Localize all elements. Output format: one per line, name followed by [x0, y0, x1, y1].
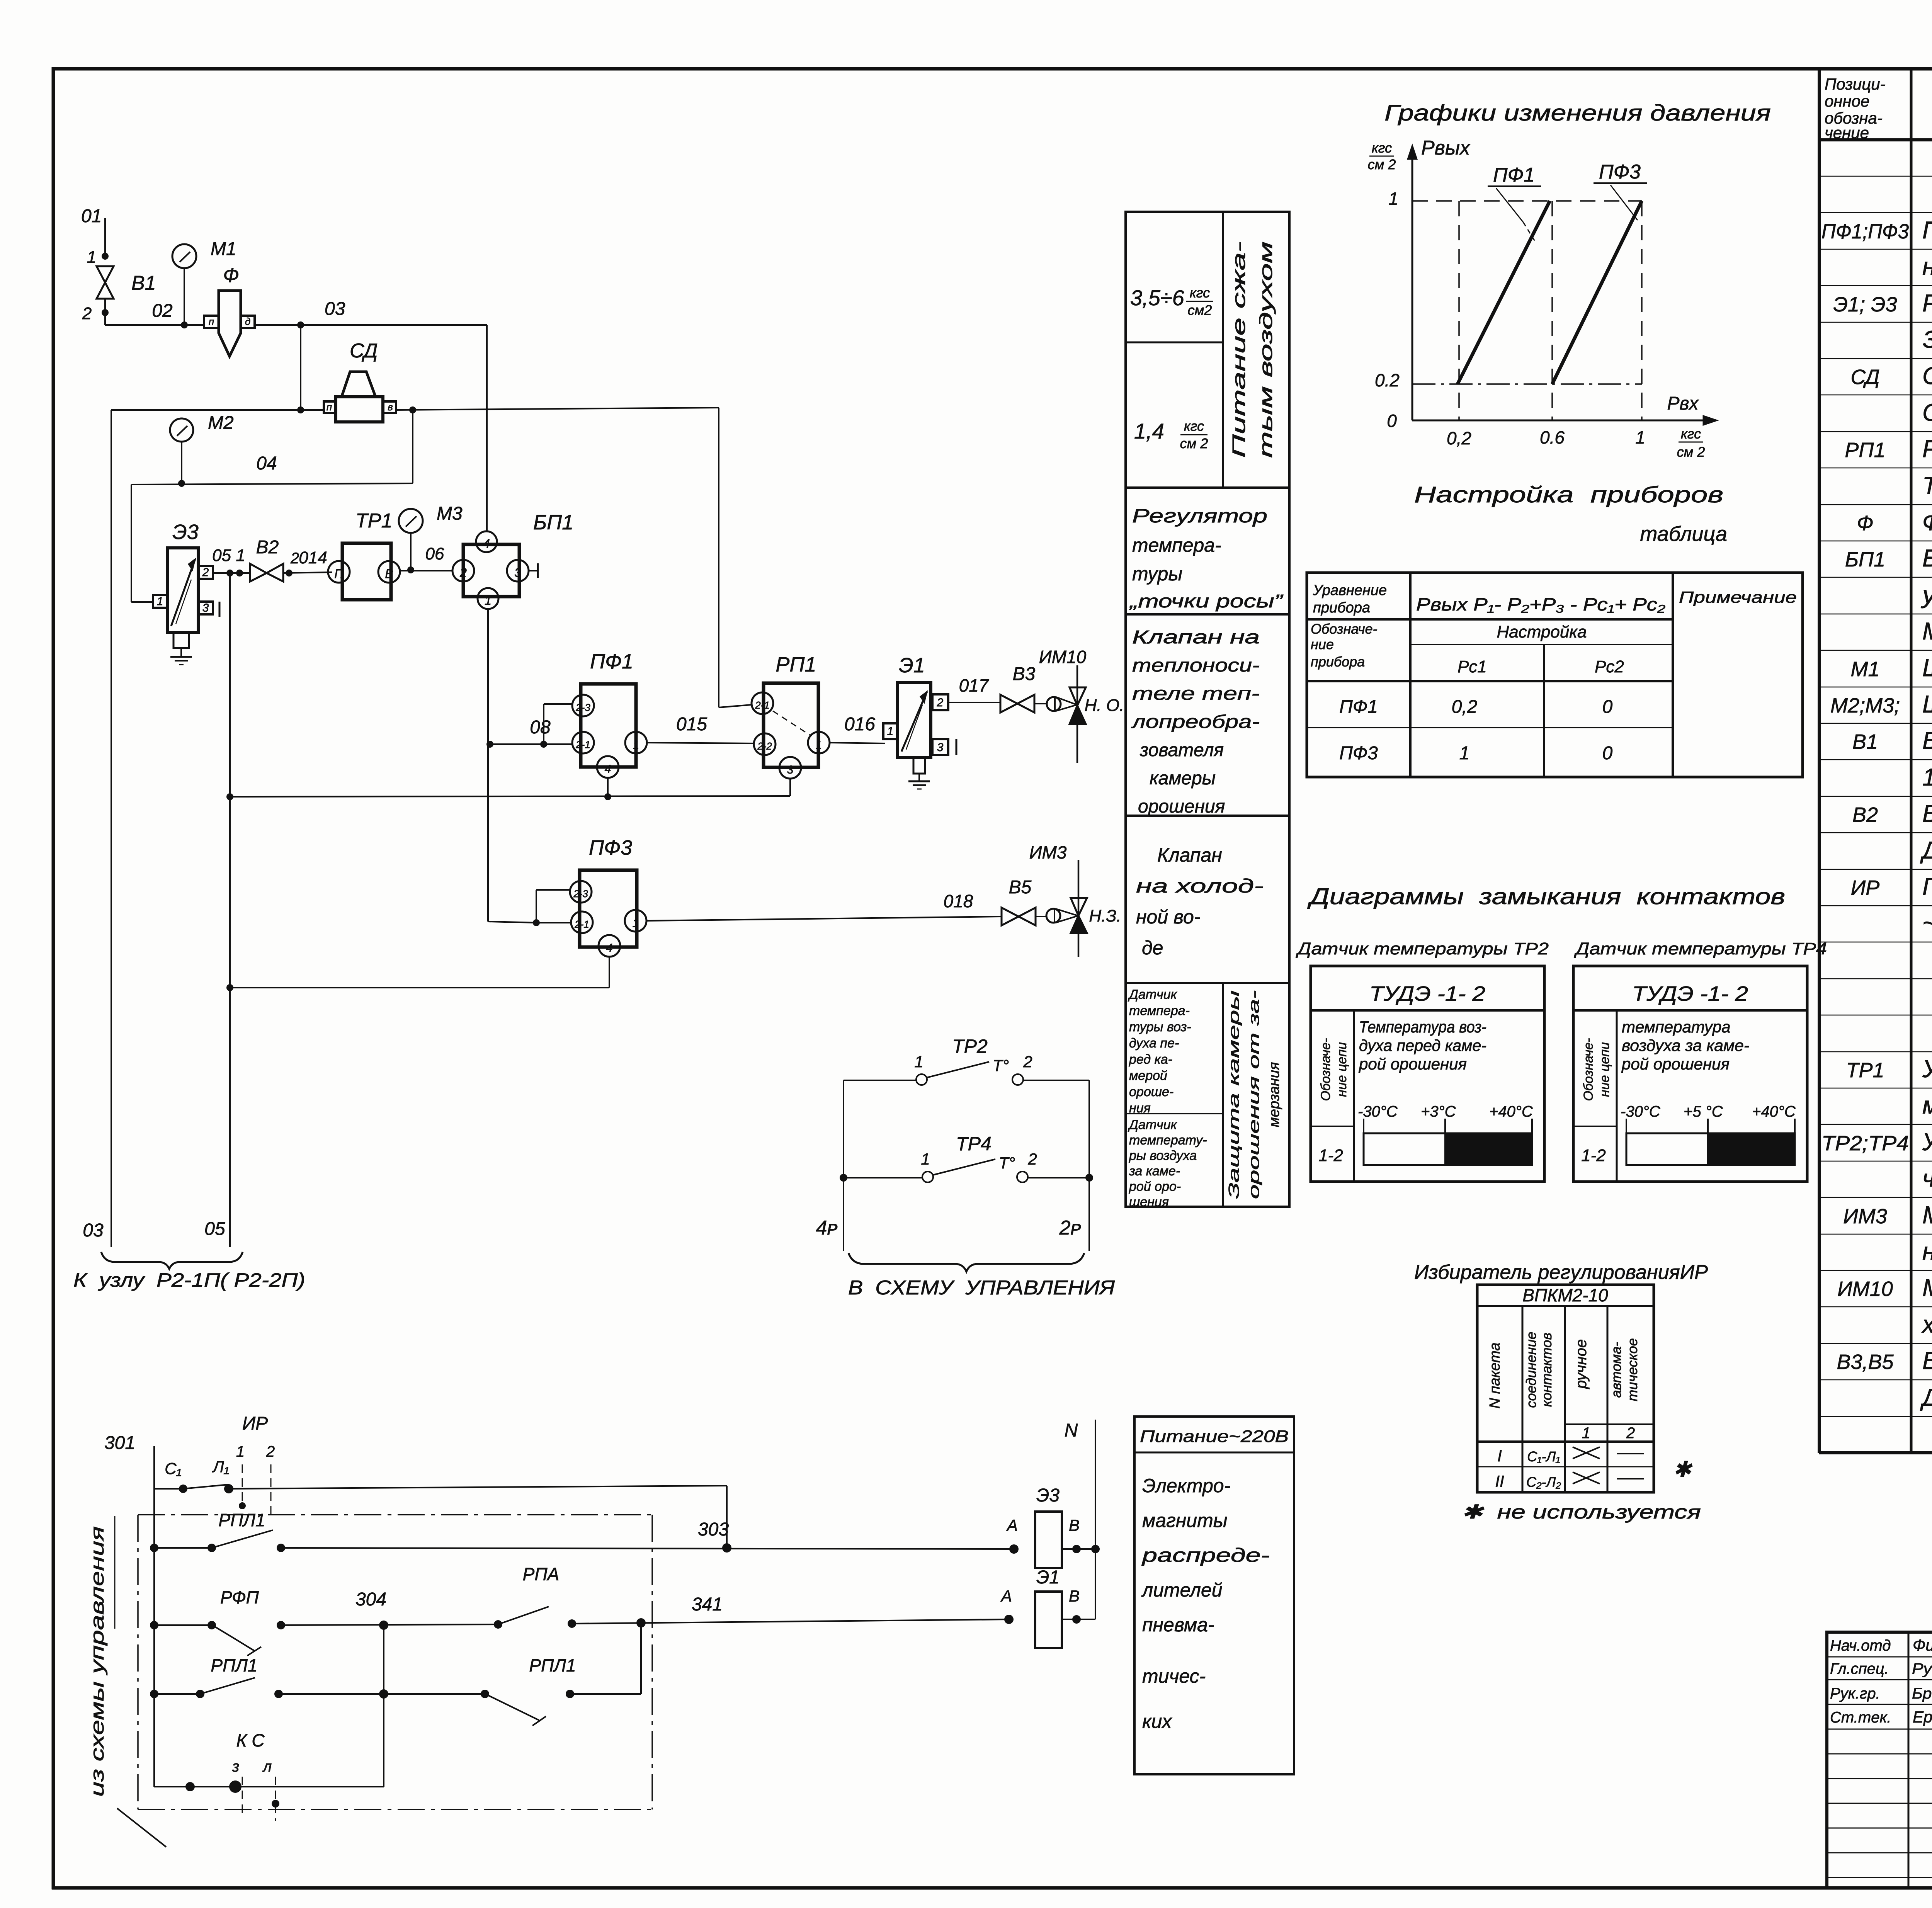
- svg-text:М1: М1: [211, 239, 236, 259]
- svg-text:Рубчинский: Рубчинский: [1912, 1660, 1932, 1677]
- svg-text:3ˣходовой 22кч801бк ТУ26-07-0: 3ˣходовой 22кч801бк ТУ26-07-034-76: [1922, 326, 1932, 353]
- svg-text:1: 1: [633, 739, 639, 752]
- svg-text:Стабилизатор давления воздуха: Стабилизатор давления воздуха: [1922, 362, 1932, 389]
- svg-text:Фингер: Фингер: [1913, 1636, 1932, 1654]
- valve V2: [250, 537, 332, 582]
- actuator IM3: [1029, 842, 1121, 957]
- svg-text:ние цепи: ние цепи: [1335, 1042, 1349, 1097]
- wire 03 to BP1: [486, 325, 488, 531]
- svg-text:В1: В1: [131, 272, 156, 294]
- svg-text:орошения от за-: орошения от за-: [1246, 990, 1262, 1199]
- parts list table: [1819, 68, 1932, 1453]
- TR4 contact row: [840, 1133, 1093, 1182]
- svg-text:0,2: 0,2: [1447, 428, 1471, 448]
- svg-text:Примечание: Примечание: [1679, 588, 1797, 606]
- svg-text:ПФ1: ПФ1: [1493, 164, 1535, 186]
- svg-text:Шкала 0÷10 кгс /см²: Шкала 0÷10 кгс /см²: [1922, 655, 1932, 682]
- svg-text:ния: ния: [1129, 1101, 1151, 1116]
- svg-text:мерой: мерой: [1129, 1068, 1167, 1083]
- svg-text:ТР2;ТР4: ТР2;ТР4: [1821, 1132, 1909, 1155]
- svg-text:Настройка приборов: Настройка приборов: [1414, 482, 1723, 507]
- svg-text:С₁: С₁: [165, 1459, 182, 1478]
- svg-text:Фильтр воздуха ФВ6-02 ТУ25-02.: Фильтр воздуха ФВ6-02 ТУ25-02.280666-76: [1922, 508, 1932, 536]
- title block labels: [1830, 1634, 1932, 1726]
- svg-text:чение: чение: [1825, 124, 1869, 142]
- svg-text:С₁-Л₁: С₁-Л₁: [1527, 1449, 1560, 1464]
- svg-text:0: 0: [1602, 697, 1613, 717]
- svg-text:низм ГОСТ 9887-70: низм ГОСТ 9887-70: [1922, 1238, 1932, 1265]
- svg-text:см2: см2: [1188, 302, 1212, 318]
- regulator text: [1129, 505, 1283, 612]
- nastroika title: [1414, 482, 1727, 546]
- svg-text:Ст.тек.: Ст.тек.: [1830, 1709, 1891, 1726]
- svg-text:Вентиль запорный муфтовый: Вентиль запорный муфтовый: [1922, 727, 1932, 754]
- wire 08: [486, 609, 551, 923]
- svg-text:на холод-: на холод-: [1136, 875, 1264, 897]
- svg-text:N пакета: N пакета: [1487, 1342, 1503, 1408]
- rung RPL1 303: [150, 1510, 1014, 1553]
- svg-text:II: II: [1495, 1472, 1504, 1490]
- svg-text:Распределитель пневматически: Распределитель пневматический: [1922, 290, 1932, 317]
- svg-text:Позици-: Позици-: [1825, 75, 1886, 93]
- summator PF3: [533, 836, 646, 957]
- svg-text:Мембранный исполнительный меха: Мембранный исполнительный меха-: [1922, 1202, 1932, 1229]
- svg-text:М1: М1: [1850, 658, 1879, 681]
- parts list header: [1825, 75, 1932, 142]
- wire 06: [400, 544, 452, 571]
- svg-text:А: А: [1000, 1587, 1012, 1605]
- svg-text:РФП: РФП: [220, 1587, 259, 1607]
- svg-text:матическое ТУДП-М-1 ТУ25-02.1: матическое ТУДП-М-1 ТУ25-02.1297-74: [1922, 1092, 1932, 1119]
- svg-text:температу-: температу-: [1129, 1133, 1207, 1148]
- brace K uzlu: [73, 1252, 305, 1291]
- middle column box: [1126, 212, 1289, 1207]
- svg-text:Защита камеры: Защита камеры: [1226, 990, 1242, 1199]
- svg-text:+40°С: +40°С: [1489, 1103, 1533, 1120]
- svg-text:06: 06: [425, 544, 444, 563]
- svg-text:тичес-: тичес-: [1142, 1665, 1206, 1687]
- svg-text:01: 01: [81, 206, 102, 226]
- svg-text:2: 2: [1027, 1150, 1037, 1168]
- wire PF3-4 out: [226, 778, 611, 991]
- svg-text:Н. О.: Н. О.: [1085, 696, 1124, 715]
- svg-text:05: 05: [204, 1219, 225, 1239]
- svg-text:В3: В3: [1013, 664, 1036, 684]
- svg-text:туры воз-: туры воз-: [1129, 1020, 1191, 1034]
- svg-text:В2: В2: [256, 537, 279, 558]
- wire 016: [830, 714, 885, 743]
- svg-text:ИР: ИР: [1851, 876, 1880, 900]
- svg-text:2: 2: [459, 566, 467, 580]
- wire 03: [255, 299, 487, 413]
- svg-text:304: 304: [355, 1589, 386, 1610]
- SD to RP1 wire: [719, 408, 751, 707]
- svg-text:Пакетный выключатель ВПКМ2-10: Пакетный выключатель ВПКМ2-10: [1922, 873, 1932, 900]
- IR switch: [236, 1413, 275, 1518]
- svg-text:0.2: 0.2: [1375, 370, 1400, 390]
- svg-text:ТУДЭ -1- 2: ТУДЭ -1- 2: [1632, 982, 1748, 1005]
- svg-text:из схемы управления: из схемы управления: [87, 1526, 108, 1797]
- rung KC: [154, 1730, 384, 1821]
- svg-text:ких: ких: [1142, 1711, 1172, 1732]
- title block: [1827, 1632, 1932, 1888]
- svg-text:ПФ3: ПФ3: [589, 836, 632, 859]
- coil E1: [1000, 1567, 1095, 1648]
- svg-text:✱: ✱: [1673, 1457, 1693, 1481]
- graph dashed grid: [1412, 201, 1642, 420]
- svg-text:4ᴘ: 4ᴘ: [816, 1217, 838, 1239]
- coil E3: [1006, 1485, 1100, 1568]
- sensor TR4 cell text: [1128, 1117, 1207, 1209]
- svg-text:Электро-: Электро-: [1142, 1475, 1230, 1496]
- svg-text:см 2: см 2: [1677, 444, 1705, 460]
- svg-text:ороше-: ороше-: [1129, 1085, 1173, 1099]
- svg-text:2-3: 2-3: [575, 702, 590, 713]
- svg-text:Байпасная панель дистанционног: Байпасная панель дистанционного: [1922, 545, 1932, 572]
- svg-text:016: 016: [844, 714, 875, 735]
- svg-text:„точки росы”: „точки росы”: [1129, 591, 1283, 612]
- left rail 03: [83, 410, 111, 1247]
- svg-text:301: 301: [104, 1433, 135, 1453]
- rail 05: [204, 573, 230, 1247]
- svg-text:з: з: [232, 1758, 240, 1775]
- svg-text:автома-: автома-: [1608, 1342, 1624, 1398]
- asterisk note: [1461, 1457, 1701, 1523]
- svg-text:✱ не используется: ✱ не используется: [1461, 1501, 1701, 1523]
- svg-text:В1: В1: [1852, 730, 1878, 753]
- bypass panel BP1: [452, 511, 573, 609]
- svg-text:Датчик: Датчик: [1128, 987, 1178, 1002]
- relay RP1: [752, 653, 830, 779]
- svg-text:Н.З.: Н.З.: [1089, 906, 1121, 925]
- actuator IM10: [1039, 647, 1124, 763]
- pressure values: [1130, 285, 1213, 451]
- svg-text:А: А: [1006, 1516, 1018, 1534]
- svg-text:п: п: [327, 401, 332, 413]
- svg-text:тым воздухом: тым воздухом: [1256, 241, 1276, 458]
- svg-text:2-1: 2-1: [575, 739, 590, 750]
- svg-text:-30°С: -30°С: [1621, 1103, 1661, 1120]
- svg-text:+3°С: +3°С: [1421, 1103, 1456, 1120]
- svg-text:N: N: [1065, 1420, 1078, 1441]
- svg-text:Обозначе-: Обозначе-: [1318, 1038, 1333, 1101]
- svg-text:2: 2: [266, 1443, 275, 1460]
- svg-text:15Б 3рк, Ду15 ГОСТ 9086-74: 15Б 3рк, Ду15 ГОСТ 9086-74: [1922, 764, 1932, 791]
- svg-text:ной во-: ной во-: [1136, 906, 1200, 928]
- svg-text:за каме-: за каме-: [1129, 1164, 1180, 1178]
- wire 015: [647, 714, 754, 743]
- svg-text:ние цепи: ние цепи: [1597, 1042, 1612, 1097]
- svg-text:Э3: Э3: [172, 520, 199, 544]
- svg-text:П: П: [334, 567, 344, 581]
- svg-text:2: 2: [1023, 1053, 1032, 1071]
- svg-text:М2: М2: [208, 413, 234, 433]
- distributor E3: [131, 520, 219, 665]
- svg-text:-30°С: -30°С: [1358, 1103, 1398, 1120]
- wire 02: [105, 301, 205, 325]
- svg-text:303: 303: [698, 1519, 729, 1540]
- svg-text:К узлу Р2-1П( Р2-2П): К узлу Р2-1П( Р2-2П): [73, 1269, 305, 1291]
- svg-text:ПФ3: ПФ3: [1339, 743, 1378, 764]
- svg-text:ПФ1;ПФ3: ПФ1;ПФ3: [1821, 220, 1909, 243]
- svg-text:таблица: таблица: [1640, 522, 1727, 546]
- svg-text:ПФ1: ПФ1: [1339, 697, 1378, 717]
- svg-text:ТР1: ТР1: [355, 510, 392, 532]
- svg-text:3: 3: [202, 602, 209, 614]
- graph curve labels: [1488, 161, 1647, 243]
- rung RPL1 lower: [150, 1623, 641, 1787]
- svg-text:02: 02: [152, 301, 172, 321]
- svg-text:пневма-: пневма-: [1142, 1614, 1214, 1636]
- svg-text:Диаграммы замыкания контакто: Диаграммы замыкания контактов: [1307, 884, 1785, 909]
- svg-text:орошения: орошения: [1138, 796, 1225, 817]
- svg-text:Бронштейн: Бронштейн: [1912, 1685, 1932, 1702]
- svg-text:В: В: [385, 567, 393, 581]
- svg-text:контактов: контактов: [1539, 1333, 1554, 1407]
- svg-text:Настройка: Настройка: [1497, 622, 1587, 641]
- svg-text:Уравнение: Уравнение: [1313, 582, 1387, 599]
- svg-text:1: 1: [1582, 1425, 1590, 1442]
- svg-text:магниты: магниты: [1142, 1510, 1228, 1531]
- svg-text:СДВ 6 ТУ25-02.280656-76: СДВ 6 ТУ25-02.280656-76: [1922, 399, 1932, 426]
- svg-text:ИР: ИР: [242, 1413, 268, 1434]
- svg-text:п: п: [209, 316, 214, 327]
- svg-text:~220В; 10А ОСТ16.0.526.001-7: ~220В; 10А ОСТ16.0.526.001-77: [1922, 910, 1932, 937]
- svg-text:Э1; Э3: Э1; Э3: [1833, 293, 1897, 316]
- svg-text:лопреобра-: лопреобра-: [1131, 712, 1260, 732]
- svg-text:1: 1: [1635, 427, 1645, 447]
- svg-text:духа пе-: духа пе-: [1129, 1036, 1179, 1051]
- power supply box: [1134, 1417, 1294, 1774]
- svg-text:л: л: [262, 1758, 272, 1775]
- svg-text:1: 1: [1459, 743, 1470, 764]
- svg-text:2: 2: [290, 550, 299, 567]
- svg-text:распреде-: распреде-: [1141, 1544, 1270, 1566]
- svg-text:СД: СД: [350, 340, 378, 362]
- svg-text:ние: ние: [1311, 636, 1334, 652]
- svg-text:Рвых: Рвых: [1421, 137, 1471, 159]
- svg-text:3: 3: [937, 741, 944, 754]
- valve V1: [82, 266, 156, 325]
- wire RP1-3 out: [226, 779, 790, 800]
- svg-text:СД: СД: [1850, 366, 1879, 389]
- svg-text:РПА: РПА: [523, 1564, 560, 1584]
- svg-text:ТР1: ТР1: [1846, 1059, 1884, 1082]
- svg-text:Прибор алгебраического суммиро: Прибор алгебраического суммирова-: [1922, 217, 1932, 244]
- svg-text:Клапан: Клапан: [1157, 844, 1222, 866]
- svg-text:теплоноси-: теплоноси-: [1132, 655, 1260, 676]
- svg-text:РП1: РП1: [776, 653, 816, 676]
- svg-text:Э3: Э3: [1036, 1485, 1060, 1506]
- svg-text:К С: К С: [236, 1730, 265, 1750]
- svg-text:Э1: Э1: [899, 654, 925, 677]
- graph curve PF3: [1552, 201, 1642, 384]
- SD line: [111, 406, 719, 413]
- manometer M2: [170, 413, 234, 487]
- svg-text:В2: В2: [1852, 803, 1878, 826]
- svg-text:2: 2: [82, 304, 92, 323]
- svg-text:Л₁: Л₁: [212, 1457, 229, 1476]
- svg-text:см 2: см 2: [1368, 156, 1396, 172]
- cold valve text: [1136, 844, 1264, 959]
- sensor TR2 cell text: [1128, 987, 1191, 1116]
- svg-text:рой оро-: рой оро-: [1129, 1179, 1181, 1194]
- svg-text:Э1: Э1: [1036, 1567, 1060, 1588]
- svg-text:Графики изменения давления: Графики изменения давления: [1384, 100, 1771, 126]
- svg-text:РПЛ1: РПЛ1: [218, 1510, 265, 1530]
- svg-text:ИМ3: ИМ3: [1029, 842, 1067, 862]
- svg-text:Датчик температуры ТР2: Датчик температуры ТР2: [1295, 939, 1549, 958]
- svg-text:1,4: 1,4: [1134, 419, 1164, 443]
- svg-text:1: 1: [157, 595, 163, 608]
- svg-text:04: 04: [256, 453, 277, 474]
- svg-text:2: 2: [937, 696, 944, 709]
- svg-text:3: 3: [787, 764, 794, 776]
- graph axis labels: [1368, 137, 1705, 460]
- svg-text:лителей: лителей: [1141, 1579, 1223, 1601]
- svg-text:зователя: зователя: [1139, 740, 1224, 760]
- svg-text:Обозначе-: Обозначе-: [1311, 621, 1378, 637]
- svg-text:Ерина: Ерина: [1913, 1708, 1932, 1726]
- svg-text:Датчик: Датчик: [1128, 1117, 1178, 1132]
- valve V5: [1002, 877, 1046, 925]
- distributor E1: [883, 654, 956, 789]
- svg-text:014: 014: [299, 548, 327, 567]
- svg-text:д: д: [245, 316, 250, 327]
- svg-text:341: 341: [692, 1594, 723, 1615]
- svg-text:управления БПДУ-А ТУ25-04.272: управления БПДУ-А ТУ25-04.2720-75: [1921, 582, 1932, 609]
- svg-text:соединение: соединение: [1523, 1332, 1539, 1408]
- svg-text:1: 1: [1388, 189, 1398, 209]
- svg-text:ры воздуха: ры воздуха: [1129, 1148, 1197, 1163]
- svg-text:темпера-: темпера-: [1132, 534, 1221, 556]
- svg-text:РПЛ1: РПЛ1: [529, 1655, 576, 1675]
- valve V3: [1000, 664, 1047, 713]
- svg-text:Нач.отд: Нач.отд: [1830, 1637, 1891, 1654]
- svg-text:Гл.спец.: Гл.спец.: [1830, 1660, 1889, 1677]
- wire 301 rail: [104, 1433, 154, 1787]
- svg-text:Рук.гр.: Рук.гр.: [1830, 1685, 1880, 1702]
- manometer M3: [399, 503, 463, 573]
- wire 051: [212, 546, 250, 576]
- svg-text:4: 4: [483, 537, 490, 551]
- svg-text:ханизм ГОСТ 9887-70: ханизм ГОСТ 9887-70: [1921, 1311, 1932, 1338]
- wire 04: [131, 410, 413, 602]
- freeze protection vertical text: [1226, 990, 1282, 1199]
- svg-text:Регулятор: Регулятор: [1132, 505, 1267, 527]
- manometer M1: [172, 239, 236, 328]
- svg-text:рой орошения: рой орошения: [1358, 1055, 1467, 1073]
- svg-text:Вентиль диафрагмовый ВПД-4,: Вентиль диафрагмовый ВПД-4,: [1922, 1347, 1932, 1374]
- svg-text:2-2: 2-2: [757, 740, 772, 752]
- svg-text:темпера-: темпера-: [1129, 1003, 1190, 1018]
- wire 017: [948, 675, 1000, 702]
- svg-text:3: 3: [514, 566, 521, 580]
- svg-text:шения: шения: [1129, 1195, 1169, 1209]
- svg-text:1: 1: [236, 1443, 245, 1460]
- svg-text:4: 4: [605, 763, 611, 775]
- svg-text:Устройство терморегулирующее э: Устройство терморегулирующее электри: [1922, 1129, 1932, 1156]
- svg-text:2: 2: [202, 566, 209, 579]
- svg-text:Рвх: Рвх: [1667, 393, 1699, 414]
- svg-text:Вентиль диафрагмовый ВПД-4,: Вентиль диафрагмовый ВПД-4,: [1922, 800, 1932, 827]
- wire 018: [646, 891, 1002, 921]
- svg-text:0,2: 0,2: [1452, 697, 1478, 717]
- svg-text:кгс: кгс: [1681, 426, 1701, 442]
- svg-text:ПФ1: ПФ1: [590, 650, 633, 673]
- filter F: [204, 264, 255, 356]
- svg-text:В: В: [1069, 1516, 1080, 1534]
- svg-text:1: 1: [887, 725, 894, 738]
- svg-text:Датчик температуры ТР4: Датчик температуры ТР4: [1573, 939, 1827, 958]
- graph curve PF1: [1458, 201, 1550, 384]
- svg-text:08: 08: [530, 717, 551, 738]
- svg-text:2-1: 2-1: [574, 918, 589, 930]
- svg-text:2: 2: [1626, 1425, 1635, 1442]
- svg-text:2ᴘ: 2ᴘ: [1059, 1217, 1082, 1239]
- svg-text:4: 4: [606, 942, 613, 954]
- svg-text:В: В: [1069, 1587, 1080, 1605]
- svg-text:Рвых Р₁- Р₂+Р₃ - Рс₁+ Рс₂: Рвых Р₁- Р₂+Р₃ - Рс₁+ Рс₂: [1416, 594, 1666, 614]
- svg-text:ТУДЭ -1- 2: ТУДЭ -1- 2: [1369, 982, 1485, 1005]
- IR selector table: [1477, 1285, 1654, 1492]
- node 01: [81, 206, 109, 267]
- TUDE table: [1311, 966, 1544, 1182]
- svg-text:015: 015: [676, 714, 707, 735]
- svg-text:ТР4: ТР4: [956, 1133, 992, 1155]
- svg-text:Устройство терморегулирующее п: Устройство терморегулирующее пнев-: [1922, 1056, 1932, 1083]
- svg-text:мерзания: мерзания: [1266, 1062, 1282, 1127]
- TUDE table: [1573, 966, 1807, 1182]
- svg-text:Обозначе-: Обозначе-: [1581, 1038, 1596, 1101]
- svg-text:018: 018: [944, 891, 973, 911]
- svg-text:ВПКМ2-10: ВПКМ2-10: [1522, 1285, 1608, 1305]
- svg-text:Манометры МТ-2 ТУ25-02.72-75: Манометры МТ-2 ТУ25-02.72-75: [1922, 618, 1932, 645]
- svg-text:Мембранный исполнительный ме-: Мембранный исполнительный ме-: [1922, 1274, 1932, 1301]
- svg-text:ред ка-: ред ка-: [1129, 1052, 1172, 1067]
- svg-text:В5: В5: [1009, 877, 1032, 898]
- svg-text:Шкала 0÷2,5 кгс/см²: Шкала 0÷2,5 кгс/см²: [1922, 691, 1932, 718]
- svg-text:Реле переключения ПП2.5: Реле переключения ПП2.5: [1922, 435, 1932, 463]
- svg-text:БП1: БП1: [533, 511, 573, 534]
- dashed control box: [138, 1515, 652, 1809]
- svg-text:В3,В5: В3,В5: [1837, 1350, 1894, 1374]
- svg-text:в: в: [388, 401, 393, 413]
- svg-text:ТР2: ТР2: [952, 1036, 988, 1057]
- regulator TR1: [328, 510, 400, 600]
- svg-text:017: 017: [959, 675, 989, 696]
- TR2 contact row: [844, 1036, 1089, 1085]
- svg-text:прибора: прибора: [1311, 654, 1365, 670]
- svg-text:Рс2: Рс2: [1595, 657, 1624, 676]
- rung RFP 304 RPA 341: [150, 1564, 1009, 1656]
- graph axes: [1408, 145, 1717, 425]
- svg-text:0: 0: [1387, 411, 1397, 431]
- nastroika table texts: [1311, 582, 1797, 764]
- svg-text:Температура воз-: Температура воз-: [1359, 1018, 1486, 1036]
- svg-text:2-3: 2-3: [573, 888, 588, 900]
- svg-text:Питание сжа-: Питание сжа-: [1229, 241, 1249, 458]
- brace to control circuit: [848, 1253, 1115, 1299]
- svg-text:духа перед каме-: духа перед каме-: [1359, 1036, 1486, 1054]
- svg-text:Т°: Т°: [993, 1056, 1009, 1075]
- svg-text:кгс: кгс: [1372, 140, 1392, 156]
- svg-text:+5 °С: +5 °С: [1684, 1103, 1723, 1120]
- svg-text:1: 1: [87, 248, 96, 267]
- svg-text:кгс: кгс: [1184, 418, 1204, 434]
- svg-text:де: де: [1142, 937, 1163, 959]
- TR circuit rails: [816, 1080, 1089, 1251]
